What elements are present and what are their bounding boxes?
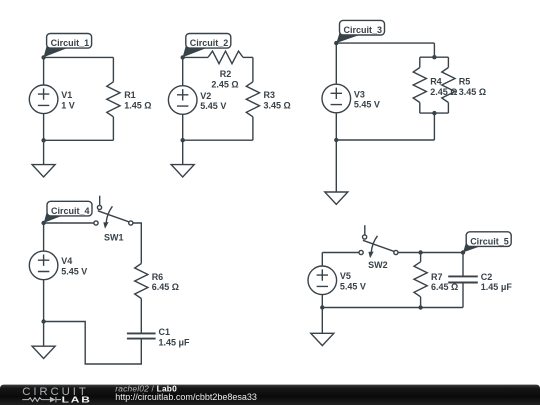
switch SW1 — [94, 196, 133, 243]
ground C2 — [171, 140, 194, 177]
wire switch to corner C4 — [133, 223, 141, 264]
svg-text:R7: R7 — [431, 272, 443, 282]
resistor R6 — [135, 264, 164, 299]
wire right-bottom C2 — [252, 117, 254, 140]
wire top-left C2 — [183, 56, 208, 58]
svg-text:6.45 Ω: 6.45 Ω — [431, 282, 458, 292]
resistor R1 — [107, 82, 136, 117]
label Circuit_2 — [183, 34, 231, 58]
voltage source V2 — [168, 57, 211, 140]
svg-text:1.45 μF: 1.45 μF — [481, 282, 513, 292]
node A4 (label attach) — [41, 221, 45, 225]
wire bottom C3 — [336, 139, 434, 141]
wire bottom C2 — [183, 139, 253, 141]
wire R6 to C1 cap — [140, 299, 142, 334]
svg-text:Circuit_3: Circuit_3 — [344, 25, 383, 35]
svg-text:V3: V3 — [354, 89, 365, 99]
node junction R7 bottom — [418, 305, 422, 309]
wire parallel top bar C3 — [420, 56, 449, 58]
svg-text:1 V: 1 V — [61, 100, 75, 110]
svg-text:V4: V4 — [61, 256, 72, 266]
svg-text:R3: R3 — [264, 90, 276, 100]
svg-text:V2: V2 — [200, 91, 211, 101]
voltage source V1 — [29, 57, 72, 140]
node A1 (label attach) — [41, 55, 45, 59]
svg-text:V1: V1 — [61, 90, 72, 100]
svg-text:C2: C2 — [481, 272, 493, 282]
svg-text:6.45 Ω: 6.45 Ω — [152, 282, 179, 292]
svg-text:V5: V5 — [340, 271, 351, 281]
wire V5 column C5 — [321, 253, 323, 267]
resistor R3 — [246, 82, 275, 117]
svg-text:1.45 Ω: 1.45 Ω — [124, 100, 151, 110]
wire cap bottom path C4 — [44, 322, 142, 365]
svg-text:R1: R1 — [124, 90, 136, 100]
svg-text:R5: R5 — [459, 76, 471, 86]
wire right-top C1 — [112, 57, 114, 81]
wire top-left C4 — [44, 222, 94, 224]
svg-text:R4: R4 — [430, 76, 442, 86]
footer bar — [0, 385, 540, 405]
voltage source V5 — [308, 266, 351, 308]
node junction bottom-left C5 — [320, 305, 324, 309]
ground C5 — [311, 308, 334, 346]
svg-text:3.45 Ω: 3.45 Ω — [459, 87, 486, 97]
wire parallel bottom bar C3 — [420, 112, 449, 114]
svg-text:5.45 V: 5.45 V — [340, 281, 366, 291]
svg-text:2.45 Ω: 2.45 Ω — [211, 79, 238, 89]
CircuitLab logo squiggle resistor + diode — [22, 397, 61, 403]
voltage source V3 — [322, 43, 365, 140]
svg-text:LAB: LAB — [62, 396, 92, 405]
node junction bottom C2 — [181, 138, 185, 142]
node junction bottom C3 — [334, 138, 338, 142]
capacitor C2 — [448, 253, 492, 308]
svg-text:5.45 V: 5.45 V — [354, 100, 380, 110]
wire top C1 — [44, 56, 114, 58]
resistor R2 — [208, 51, 243, 79]
wire down to parallel block C3 — [433, 43, 435, 57]
label Circuit_3 — [336, 20, 384, 43]
svg-text:R6: R6 — [152, 272, 164, 282]
node A3 (label attach) — [334, 41, 338, 45]
node junction bottom C4 — [41, 319, 45, 323]
resistor R7 — [414, 253, 443, 308]
svg-text:5.45 V: 5.45 V — [200, 101, 226, 111]
capacitor C1 — [127, 327, 170, 339]
svg-text:SW1: SW1 — [104, 233, 124, 243]
svg-text:Circuit_4: Circuit_4 — [51, 206, 90, 216]
svg-text:5.45 V: 5.45 V — [61, 266, 87, 276]
svg-text:C1: C1 — [159, 327, 171, 337]
resistor R5 — [442, 57, 471, 113]
wire top-left C5 — [322, 252, 359, 254]
svg-text:R2: R2 — [220, 69, 232, 79]
svg-text:Circuit_5: Circuit_5 — [470, 236, 509, 246]
svg-text:1.45 μF: 1.45 μF — [159, 337, 191, 347]
wire switch to C2 node — [398, 252, 463, 254]
wire right-bottom C3 — [433, 113, 435, 140]
resistor R4 — [413, 57, 442, 113]
label Circuit_5 — [463, 232, 511, 253]
node junction parallel bottom — [432, 111, 436, 115]
svg-text:SW2: SW2 — [368, 260, 388, 270]
node junction parallel top — [432, 55, 436, 59]
wire top-right C2 — [243, 56, 253, 58]
wire top C3 — [336, 42, 434, 44]
svg-text:Circuit_1: Circuit_1 — [51, 38, 90, 48]
svg-text:3.45 Ω: 3.45 Ω — [264, 100, 291, 110]
wire bottom C1 — [44, 139, 114, 141]
node attach C5 label — [461, 250, 465, 254]
ground C4 — [32, 322, 55, 359]
wire right-bottom C1 — [112, 117, 114, 141]
switch SW2 — [359, 225, 398, 270]
svg-text:http://circuitlab.com/cbbt2be8: http://circuitlab.com/cbbt2be8esa33 — [115, 392, 257, 402]
node junction bottom C1 — [41, 138, 45, 142]
label Circuit_1 — [44, 34, 92, 58]
ground C1 — [32, 140, 55, 177]
node A2 (label attach) — [181, 55, 185, 59]
wire bottom C5 — [322, 307, 463, 309]
ground C3 — [325, 140, 348, 204]
voltage source V4 — [29, 223, 72, 322]
label Circuit_4 — [44, 201, 92, 223]
svg-text:Circuit_2: Circuit_2 — [190, 38, 229, 48]
wire right-top C2 — [252, 57, 254, 81]
node junction R7 top — [418, 250, 422, 254]
